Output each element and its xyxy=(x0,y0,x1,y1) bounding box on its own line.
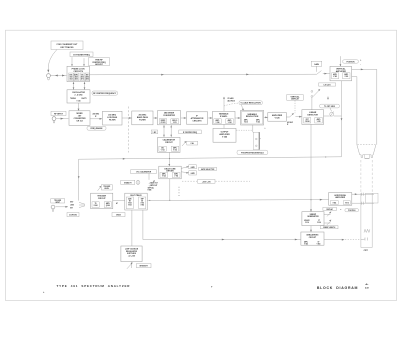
svg-text:KEY TRACKS: KEY TRACKS xyxy=(61,46,75,49)
svg-text:+100V +15V: +100V +15V xyxy=(202,181,212,183)
svg-text:1ST MIXER FREQ: 1ST MIXER FREQ xyxy=(73,54,90,56)
label: long to-all-stages label xyxy=(237,150,268,154)
svg-text:FOR COHERENT OUT: FOR COHERENT OUT xyxy=(57,44,79,46)
svg-text:EXT: EXT xyxy=(70,202,73,204)
svg-text:MILLER: MILLER xyxy=(304,220,309,222)
box: sweep gating O xyxy=(125,193,147,210)
svg-text:RF CENTER FREQUENCY: RF CENTER FREQUENCY xyxy=(93,93,117,95)
wire: M down to sweep wire xyxy=(169,179,171,200)
svg-text:MULTI TRACE: MULTI TRACE xyxy=(130,194,142,197)
variable arrow right of label xyxy=(148,180,155,191)
dashed section divider xyxy=(128,107,130,153)
svg-text:V 135: V 135 xyxy=(77,101,81,103)
wire: calibrator down to selector M xyxy=(168,152,170,166)
crt deflection plates box xyxy=(366,193,379,203)
svg-text:CIRCUIT: CIRCUIT xyxy=(98,198,107,200)
svg-text:TD: TD xyxy=(95,203,97,205)
variable arrows right of S xyxy=(324,212,331,225)
svg-text:VvvvBLE RESOLUTION: VvvvBLE RESOLUTION xyxy=(241,103,262,105)
wire: long line phase lock to vertical amp xyxy=(90,74,317,76)
connector J1 xyxy=(47,74,51,80)
svg-text:V 525: V 525 xyxy=(275,118,280,120)
wire: J3 to selector xyxy=(56,206,69,208)
potentiometer after B8 xyxy=(324,111,342,116)
crt funnel xyxy=(357,145,376,159)
label: sweep mode xyxy=(112,213,125,217)
svg-text:IF CENTER FREQ: IF CENTER FREQ xyxy=(183,132,198,134)
box: oscillator B2 xyxy=(67,90,90,103)
wire: up from I5 with note xyxy=(223,97,235,112)
wire: B8 down to sweep generator xyxy=(310,124,312,211)
svg-text:GENERATOR: GENERATOR xyxy=(307,215,319,218)
box: sweep generator S xyxy=(302,212,324,226)
box: resolution amplifier B6 double border xyxy=(241,110,264,125)
svg-text:CIRCUIT: CIRCUIT xyxy=(165,142,174,144)
wire xyxy=(153,117,157,119)
svg-text:SWEEP LENGTH: SWEEP LENGTH xyxy=(323,227,335,229)
svg-text:INPUT: INPUT xyxy=(55,202,60,204)
double arrows phase lock to oscillator xyxy=(73,82,86,90)
label: 1st mixer freq xyxy=(70,52,93,57)
box: low pass filter X2 xyxy=(103,111,123,125)
svg-text:IF: IF xyxy=(95,116,96,118)
wire T to O xyxy=(113,201,125,205)
label: 2nd lo control xyxy=(179,130,201,134)
svg-text:CIRCUITS: CIRCUITS xyxy=(193,120,203,122)
svg-text:IF: IF xyxy=(287,124,288,126)
label: trigger input xyxy=(51,199,65,204)
svg-text:V 555: V 555 xyxy=(317,121,321,123)
box: vertical amplifier B9 xyxy=(330,66,352,80)
trigger source rows xyxy=(70,202,85,210)
wire: mixer to low pass, with freq text xyxy=(90,114,102,120)
label: lin log xyxy=(319,83,336,87)
svg-text:MV: MV xyxy=(141,201,143,203)
box: sweep selector M xyxy=(159,166,181,179)
connector J2 xyxy=(52,117,56,123)
svg-text:MIX: MIX xyxy=(86,75,89,77)
page border xyxy=(6,30,397,300)
svg-text:MODE: MODE xyxy=(116,215,121,217)
svg-text:200 MHZ: 200 MHZ xyxy=(93,114,100,116)
lin/log switch xyxy=(311,89,320,110)
svg-text:FILTER: FILTER xyxy=(139,119,146,121)
box: unblanking B xyxy=(301,232,324,245)
svg-text:ADJUST: ADJUST xyxy=(95,63,103,66)
box: trigger circuit T xyxy=(91,193,113,208)
box: 4.5 MHz amp B7 xyxy=(268,113,287,122)
label: 1 mc xyxy=(151,130,157,134)
connector J3 xyxy=(51,205,55,211)
svg-text:RF INPUT: RF INPUT xyxy=(54,114,64,116)
box: phase lock circuits B1 xyxy=(67,66,90,81)
box: power supply P xyxy=(121,246,142,262)
box: 2nd converter I3 xyxy=(158,111,181,125)
wire: B9 bottom down and across to power label xyxy=(79,81,343,160)
wire xyxy=(264,117,268,119)
svg-text:POSITION: POSITION xyxy=(346,62,355,64)
box: 3rd converter I5 xyxy=(213,111,236,124)
label: 1st converter output note xyxy=(51,41,83,50)
svg-text:R 885: R 885 xyxy=(148,190,152,192)
svg-text:V 215: V 215 xyxy=(173,122,177,124)
label: above box6 xyxy=(239,101,262,111)
svg-text:TYPE 491 SPECTRUM ANALYZER: TYPE 491 SPECTRUM ANALYZER xyxy=(57,284,131,288)
svg-text:CIRCUIT: CIRCUIT xyxy=(309,237,317,239)
svg-text:TRIGGER: TRIGGER xyxy=(54,200,62,202)
box: 200 MHz IF amp I2 xyxy=(132,111,153,125)
label above O xyxy=(121,180,140,185)
dotted column xyxy=(178,187,181,196)
svg-text:IF AMPL: IF AMPL xyxy=(220,115,228,118)
svg-text:+: + xyxy=(211,284,213,288)
box: horizontal amplifier H xyxy=(329,193,352,206)
wire: oscillator down to mixer xyxy=(78,103,80,111)
svg-text:DISPLAY: DISPLAY xyxy=(291,98,299,101)
small arrow above label xyxy=(327,96,329,99)
trigger level arrow + label xyxy=(98,185,113,191)
wires: H to crt plates xyxy=(352,193,374,205)
svg-text:V 585: V 585 xyxy=(333,76,337,78)
wire: sweep line O to horizontal amp xyxy=(147,199,328,201)
svg-text:TUNING: TUNING xyxy=(70,98,77,100)
svg-text:OSC: OSC xyxy=(81,75,84,77)
label: trig coupling xyxy=(67,213,79,217)
svg-text:DET: DET xyxy=(306,119,309,121)
box: 1st mixer X1 xyxy=(69,111,90,126)
tiny gate notes xyxy=(149,181,158,187)
wire: J1 to phase lock (double arrows) xyxy=(51,75,67,77)
box: calibrator C xyxy=(158,137,180,152)
svg-text:1 KC CALIBRATOR: 1 KC CALIBRATOR xyxy=(136,171,152,174)
wire with switch to B8 xyxy=(286,113,301,126)
gate output labels xyxy=(181,165,216,175)
svg-text:GAIN: GAIN xyxy=(314,63,319,66)
svg-text:4-68: 4-68 xyxy=(365,286,369,289)
svg-text:INT: INT xyxy=(70,207,73,209)
wire: curve from note to connector J1 xyxy=(48,50,57,71)
svg-text:LIN LOG: LIN LOG xyxy=(324,85,332,87)
svg-text:CT: CT xyxy=(318,220,320,222)
svg-text:POSITION: POSITION xyxy=(348,210,355,212)
svg-text:BLOCK DIAGRAM: BLOCK DIAGRAM xyxy=(317,286,358,290)
wire xyxy=(208,117,213,119)
svg-text:AMPLIFIER: AMPLIFIER xyxy=(335,196,345,199)
label: position (vert) xyxy=(343,60,362,66)
svg-text:RESOLUTION: RESOLUTION xyxy=(246,116,259,118)
wire: J2 to mixer xyxy=(56,118,69,120)
label: rf input xyxy=(51,111,66,115)
wafer switch below B6 xyxy=(253,125,267,150)
svg-text:FILTER: FILTER xyxy=(109,120,116,122)
wire: internal trigger line down xyxy=(78,159,80,201)
svg-text:SWP: SWP xyxy=(141,199,144,201)
label below S xyxy=(320,226,338,230)
svg-text:LINE: LINE xyxy=(70,205,74,207)
svg-text:FREQ RANGE: FREQ RANGE xyxy=(91,127,104,130)
svg-text:TRIGGER: TRIGGER xyxy=(103,186,111,188)
box: output amplifier D xyxy=(213,124,253,142)
svg-text:-12 +100: -12 +100 xyxy=(128,256,135,258)
svg-text:+B+: +B+ xyxy=(365,284,368,286)
svg-text:V 595: V 595 xyxy=(344,76,348,78)
box: gain xyxy=(311,61,322,72)
wire: X2 to IF amp xyxy=(122,117,132,119)
switch on wire before vertical amp xyxy=(317,71,330,75)
wires: O down to P and to B xyxy=(132,210,301,246)
intensity arrow + label below P xyxy=(127,262,151,269)
svg-text:CONVERTER: CONVERTER xyxy=(163,115,176,117)
svg-text:AMPLIFIER: AMPLIFIER xyxy=(336,70,347,73)
dashed curve to 2nd lo label xyxy=(224,103,238,106)
svg-text:CIRCUITS: CIRCUITS xyxy=(73,71,83,73)
wire S to B xyxy=(310,226,312,232)
svg-text:INTENSITY: INTENSITY xyxy=(140,266,149,268)
svg-text:LEVEL: LEVEL xyxy=(104,188,109,190)
dashed gate line with label xyxy=(182,179,250,183)
svg-text:PHOSPHOR REGISTER ADJ: PHOSPHOR REGISTER ADJ xyxy=(241,151,264,154)
wire: label stems into phase lock box xyxy=(71,57,85,66)
label: 1st lo center frequency xyxy=(92,91,118,95)
svg-text:COUPLING: COUPLING xyxy=(69,215,78,217)
label: 1 kc calibrator xyxy=(131,170,157,180)
svg-text:2 - 4 GHZ: 2 - 4 GHZ xyxy=(75,93,84,96)
box: IF attenuator I4 xyxy=(187,112,208,124)
wire xyxy=(181,117,187,119)
wire into vertical amp top xyxy=(340,56,342,66)
svg-text:OSC: OSC xyxy=(161,147,164,149)
svg-text:MV: MV xyxy=(129,201,131,203)
svg-text:TO CRT GRID: TO CRT GRID xyxy=(324,106,336,108)
svg-text:CF: CF xyxy=(317,241,319,243)
labels below H xyxy=(323,207,359,212)
svg-text:DETECTOR: DETECTOR xyxy=(308,114,319,116)
wire xyxy=(235,117,240,119)
wires: vertical amp to crt plates xyxy=(352,69,377,145)
svg-text:CR 112: CR 112 xyxy=(76,121,82,123)
label: fine rf center freq xyxy=(89,58,110,67)
label: vertical display xyxy=(287,95,303,114)
svg-text:DISC: DISC xyxy=(69,75,72,77)
svg-text:MIXER: MIXER xyxy=(161,120,165,122)
crt neck xyxy=(361,160,372,248)
box: detector B8 xyxy=(302,110,324,125)
svg-text:2ND LO: 2ND LO xyxy=(172,120,178,122)
double arrows box3 to cal xyxy=(163,125,172,137)
cal adjust arrow + label xyxy=(182,141,198,146)
label: to crt cathode xyxy=(320,104,340,111)
svg-text:CR 205: CR 205 xyxy=(161,122,166,124)
wire B to crt xyxy=(324,239,365,241)
label: freq range xyxy=(87,126,106,130)
